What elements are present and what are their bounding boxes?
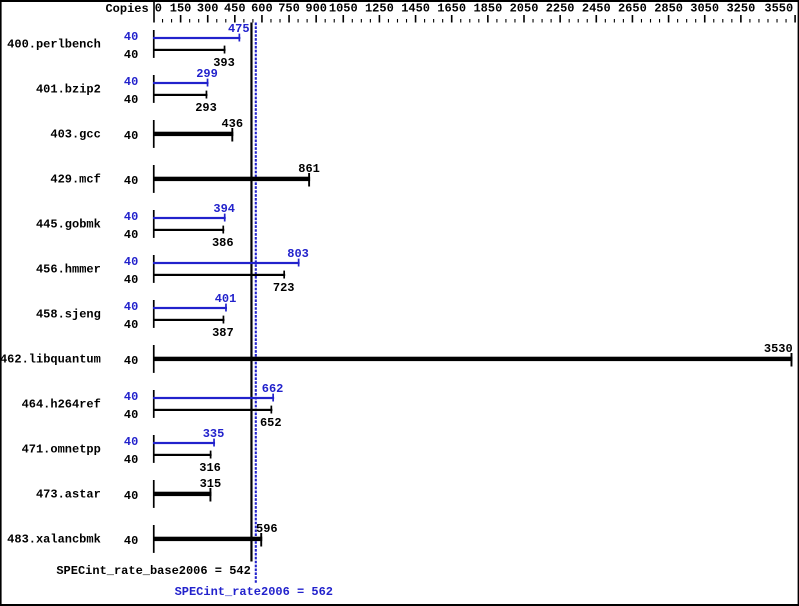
base median line 542 xyxy=(250,23,252,562)
svg-text:1250: 1250 xyxy=(365,2,394,16)
svg-text:861: 861 xyxy=(298,162,320,176)
svg-text:723: 723 xyxy=(273,281,295,295)
svg-text:40: 40 xyxy=(124,129,138,143)
svg-text:401: 401 xyxy=(215,292,237,306)
svg-text:40: 40 xyxy=(124,255,138,269)
svg-text:40: 40 xyxy=(124,30,138,44)
svg-text:40: 40 xyxy=(124,48,138,62)
svg-text:293: 293 xyxy=(195,101,217,115)
svg-text:458.sjeng: 458.sjeng xyxy=(36,308,101,322)
svg-text:3050: 3050 xyxy=(690,2,719,16)
svg-text:40: 40 xyxy=(124,354,138,368)
svg-text:2050: 2050 xyxy=(510,2,539,16)
svg-text:0: 0 xyxy=(155,2,162,16)
svg-text:387: 387 xyxy=(212,326,234,340)
svg-text:464.h264ref: 464.h264ref xyxy=(22,398,101,412)
svg-text:40: 40 xyxy=(124,390,138,404)
svg-text:429.mcf: 429.mcf xyxy=(50,173,100,187)
svg-text:3550: 3550 xyxy=(764,2,793,16)
svg-text:3530: 3530 xyxy=(764,342,793,356)
svg-text:40: 40 xyxy=(124,435,138,449)
svg-text:40: 40 xyxy=(124,453,138,467)
svg-text:40: 40 xyxy=(124,228,138,242)
svg-text:596: 596 xyxy=(256,522,278,536)
outer border xyxy=(0,0,799,2)
svg-text:299: 299 xyxy=(196,67,218,81)
svg-text:600: 600 xyxy=(251,2,273,16)
svg-text:394: 394 xyxy=(213,202,235,216)
svg-text:403.gcc: 403.gcc xyxy=(50,128,100,142)
svg-text:662: 662 xyxy=(262,382,284,396)
x axis ticks xyxy=(181,15,795,23)
svg-text:40: 40 xyxy=(124,534,138,548)
svg-text:450: 450 xyxy=(224,2,246,16)
svg-text:1050: 1050 xyxy=(329,2,358,16)
svg-text:900: 900 xyxy=(305,2,327,16)
svg-text:3250: 3250 xyxy=(726,2,755,16)
svg-text:40: 40 xyxy=(124,273,138,287)
svg-text:473.astar: 473.astar xyxy=(36,488,101,502)
svg-text:386: 386 xyxy=(212,236,234,250)
svg-text:40: 40 xyxy=(124,408,138,422)
svg-text:150: 150 xyxy=(170,2,192,16)
svg-text:436: 436 xyxy=(221,117,243,131)
svg-text:335: 335 xyxy=(203,427,225,441)
svg-text:401.bzip2: 401.bzip2 xyxy=(36,83,101,97)
svg-text:445.gobmk: 445.gobmk xyxy=(36,218,101,232)
svg-text:40: 40 xyxy=(124,300,138,314)
svg-text:40: 40 xyxy=(124,93,138,107)
svg-text:2450: 2450 xyxy=(582,2,611,16)
svg-text:40: 40 xyxy=(124,210,138,224)
svg-text:483.xalancbmk: 483.xalancbmk xyxy=(7,533,101,547)
svg-text:1650: 1650 xyxy=(437,2,466,16)
svg-text:462.libquantum: 462.libquantum xyxy=(0,353,101,367)
peak median dotted line 562 xyxy=(255,23,257,584)
svg-text:2650: 2650 xyxy=(618,2,647,16)
svg-text:652: 652 xyxy=(260,416,282,430)
svg-text:1850: 1850 xyxy=(473,2,502,16)
svg-text:456.hmmer: 456.hmmer xyxy=(36,263,101,277)
svg-text:316: 316 xyxy=(199,461,221,475)
svg-text:40: 40 xyxy=(124,174,138,188)
header separator line xyxy=(153,2,155,23)
svg-text:1450: 1450 xyxy=(401,2,430,16)
svg-text:400.perlbench: 400.perlbench xyxy=(7,38,101,52)
svg-text:803: 803 xyxy=(287,247,309,261)
svg-text:475: 475 xyxy=(228,22,250,36)
svg-text:40: 40 xyxy=(124,489,138,503)
svg-text:2250: 2250 xyxy=(546,2,575,16)
svg-text:300: 300 xyxy=(197,2,219,16)
svg-text:315: 315 xyxy=(200,477,222,491)
svg-text:40: 40 xyxy=(124,75,138,89)
svg-text:471.omnetpp: 471.omnetpp xyxy=(22,443,101,457)
svg-text:SPECint_rate2006 = 562: SPECint_rate2006 = 562 xyxy=(175,585,333,599)
svg-text:SPECint_rate_base2006 = 542: SPECint_rate_base2006 = 542 xyxy=(56,564,250,578)
svg-text:Copies: Copies xyxy=(105,2,148,16)
svg-text:40: 40 xyxy=(124,318,138,332)
svg-text:2850: 2850 xyxy=(654,2,683,16)
svg-text:750: 750 xyxy=(278,2,300,16)
